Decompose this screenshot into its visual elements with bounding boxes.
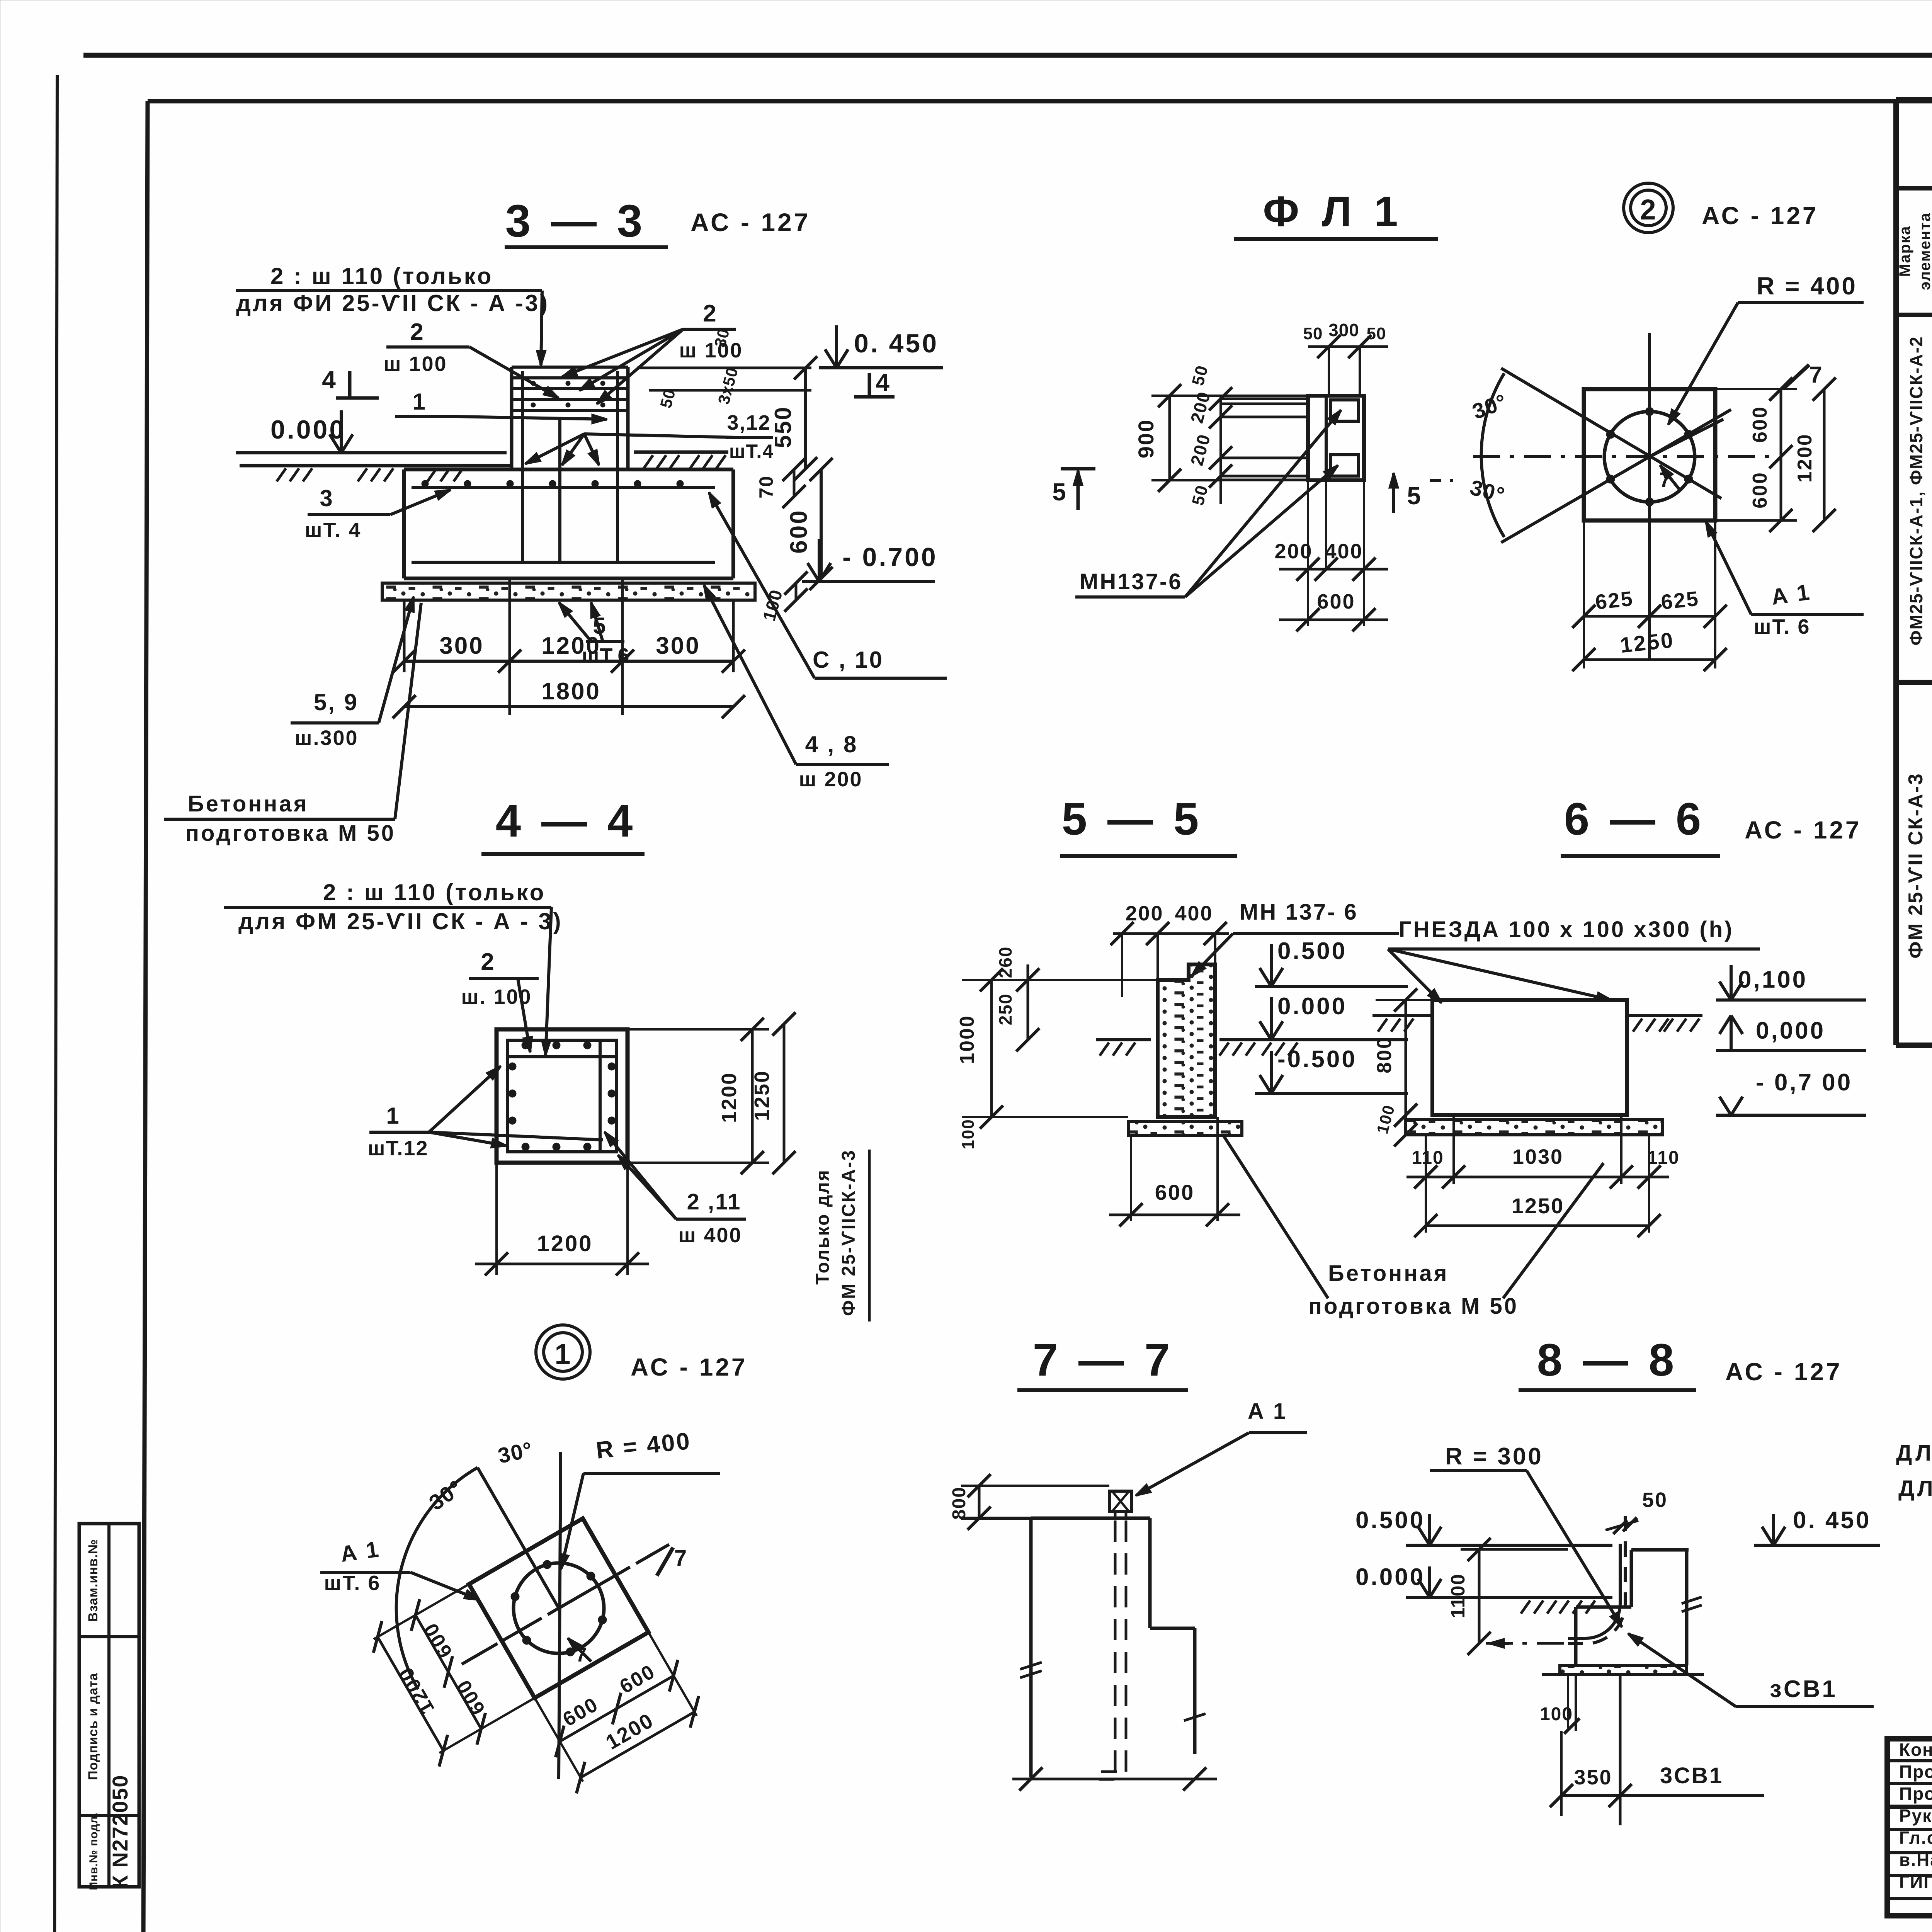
- svg-text:1250: 1250: [1512, 1194, 1565, 1218]
- svg-text:5, 9: 5, 9: [314, 689, 359, 715]
- svg-text:3: 3: [320, 485, 333, 511]
- svg-text:70: 70: [755, 475, 777, 498]
- svg-text:Констр: Констр: [1899, 1740, 1932, 1760]
- view 4-4 bottom dim 1200: [495, 1163, 498, 1275]
- svg-text:Проверил: Проверил: [1899, 1784, 1932, 1804]
- svg-text:0. 450: 0. 450: [1793, 1507, 1871, 1534]
- svg-text:-0.500: -0.500: [1277, 1046, 1357, 1073]
- svg-text:шТ.12: шТ.12: [368, 1137, 429, 1160]
- FL1 dim 900: [1168, 396, 1171, 480]
- svg-text:350: 350: [1574, 1766, 1612, 1789]
- svg-text:3СВ1: 3СВ1: [1660, 1763, 1723, 1788]
- left stamp table: [79, 1524, 139, 1887]
- svg-text:7 — 7: 7 — 7: [1033, 1335, 1174, 1386]
- svg-text:ДЛЯ ОСТАЛЬНОЙ АРМАТУРЫ - 3: ДЛЯ ОСТАЛЬНОЙ АРМАТУРЫ - 30 мм.: [1898, 1476, 1932, 1501]
- svg-text:300: 300: [656, 633, 700, 659]
- main frame top border: [148, 99, 1932, 104]
- svg-text:ФМ 25-ѴІІСК-А-3: ФМ 25-ѴІІСК-А-3: [838, 1149, 859, 1316]
- svg-text:ФМ 25-ѴІІ СК-А-3: ФМ 25-ѴІІ СК-А-3: [1905, 772, 1927, 958]
- svg-text:ГНЕЗДА 100 х 100 х300 (h): ГНЕЗДА 100 х 100 х300 (h): [1399, 917, 1734, 942]
- view 1 rotated square group: [362, 1485, 740, 1846]
- svg-text:7: 7: [1809, 362, 1823, 388]
- svg-text:1030: 1030: [1512, 1145, 1563, 1168]
- svg-text:подготовка М 50: подготовка М 50: [185, 821, 396, 846]
- svg-text:625: 625: [1594, 587, 1635, 614]
- svg-text:1800: 1800: [541, 678, 601, 705]
- svg-text:Марка: Марка: [1896, 226, 1913, 277]
- svg-text:200: 200: [1125, 902, 1163, 925]
- view 2 diagonals 30deg: [1501, 368, 1721, 498]
- svg-text:4: 4: [322, 366, 337, 394]
- view 5-5 column with concrete: [1158, 964, 1215, 1117]
- svg-text:400: 400: [1175, 902, 1213, 925]
- svg-text:50: 50: [1303, 324, 1323, 343]
- view 2 bottom dims: [1583, 520, 1585, 668]
- svg-text:0.000: 0.000: [1277, 993, 1347, 1020]
- view 5-5 left dims: [990, 980, 993, 1117]
- view 6-6 ground lines: [1372, 1014, 1432, 1017]
- svg-text:625: 625: [1660, 587, 1701, 614]
- svg-text:для ФМ 25-ѴІІ СК - А - 3): для ФМ 25-ѴІІ СК - А - 3): [238, 908, 563, 934]
- svg-text:шТ. 6: шТ. 6: [1754, 615, 1811, 638]
- svg-text:АС - 127: АС - 127: [1745, 816, 1862, 844]
- svg-text:4 — 4: 4 — 4: [496, 796, 637, 847]
- svg-text:АС - 127: АС - 127: [1725, 1358, 1842, 1386]
- view 3-3 dim 550: [804, 368, 807, 469]
- svg-text:для ФИ 25-ѴІІ СК - А -3): для ФИ 25-ѴІІ СК - А -3): [236, 290, 549, 316]
- svg-text:7: 7: [576, 1644, 588, 1666]
- svg-text:6 — 6: 6 — 6: [1564, 794, 1705, 845]
- svg-text:Инв.№ подл.: Инв.№ подл.: [87, 1812, 100, 1890]
- svg-text:260: 260: [995, 946, 1015, 978]
- svg-text:50: 50: [1367, 324, 1386, 343]
- view 1 30 deg construction lines: [478, 1468, 559, 1608]
- svg-text:R = 400: R = 400: [1757, 272, 1857, 300]
- FL1 dims 50/200/200/50: [1219, 396, 1222, 504]
- svg-text:600: 600: [1749, 471, 1771, 509]
- title block grid: [1887, 1759, 1932, 1762]
- svg-text:зСВ1: зСВ1: [1770, 1676, 1837, 1702]
- svg-text:шТ. 4: шТ. 4: [305, 519, 362, 542]
- svg-text:2: 2: [1640, 194, 1656, 226]
- svg-text:Рук. гр.: Рук. гр.: [1899, 1806, 1932, 1826]
- svg-text:110: 110: [1412, 1148, 1444, 1168]
- view 2 circle: [1604, 412, 1695, 502]
- view 5-5 concrete prep: [1129, 1122, 1242, 1136]
- svg-text:А 1: А 1: [1248, 1399, 1287, 1424]
- view 7-7 bottom dim line: [1012, 1778, 1217, 1781]
- svg-text:Гл.спец.: Гл.спец.: [1899, 1828, 1932, 1848]
- svg-text:7: 7: [1659, 468, 1672, 492]
- title block outer border: [1887, 1739, 1932, 1916]
- view 6-6 concrete prep: [1406, 1119, 1663, 1135]
- svg-text:Взам.инв.№: Взам.инв.№: [86, 1539, 100, 1622]
- svg-text:8 — 8: 8 — 8: [1537, 1335, 1678, 1386]
- svg-text:400: 400: [1325, 540, 1363, 563]
- sheet outer left border: [54, 75, 57, 1932]
- svg-text:0.000: 0.000: [1355, 1564, 1425, 1590]
- svg-text:1000: 1000: [956, 1015, 978, 1064]
- view 8-8 concrete outline: [1631, 1548, 1689, 1552]
- svg-text:- 0.700: - 0.700: [842, 543, 938, 572]
- view 4-4 right dims: [628, 1028, 769, 1031]
- svg-text:3,12: 3,12: [727, 411, 770, 434]
- svg-text:Ф Л 1: Ф Л 1: [1263, 188, 1403, 235]
- view 1 circle mark: [544, 1333, 582, 1371]
- view 8-8 dim 1100: [1478, 1549, 1481, 1643]
- svg-text:- 0,7 00: - 0,7 00: [1756, 1069, 1852, 1096]
- svg-text:шТ.4: шТ.4: [729, 440, 774, 462]
- svg-text:110: 110: [1647, 1148, 1679, 1168]
- svg-text:100: 100: [959, 1119, 978, 1149]
- svg-text:элемента: элемента: [1917, 212, 1932, 290]
- svg-text:Бетонная: Бетонная: [188, 791, 308, 816]
- FL1 embedded plate top: [1330, 400, 1359, 421]
- svg-text:800: 800: [1373, 1036, 1396, 1073]
- view 7-7 anchor bolt: [1109, 1491, 1132, 1512]
- view 5-5 bottom dim 600: [1130, 1136, 1132, 1221]
- svg-text:0,000: 0,000: [1756, 1017, 1825, 1044]
- svg-text:ш.300: ш.300: [294, 726, 358, 750]
- svg-text:2: 2: [703, 300, 717, 327]
- view 1 anchor dots: [543, 1560, 551, 1569]
- svg-text:МН137-6: МН137-6: [1080, 569, 1183, 594]
- svg-text:300: 300: [1328, 320, 1359, 340]
- view 3-3 footing outline: [404, 468, 733, 471]
- svg-text:5: 5: [1407, 482, 1422, 510]
- svg-text:1: 1: [554, 1338, 571, 1370]
- svg-text:ш 400: ш 400: [678, 1224, 742, 1247]
- svg-text:2 ,11: 2 ,11: [687, 1189, 742, 1214]
- FL1 embedded plate bottom: [1330, 455, 1359, 476]
- view 2 mark: [1631, 190, 1666, 226]
- svg-text:Бетонная: Бетонная: [1328, 1261, 1449, 1286]
- svg-text:5 — 5: 5 — 5: [1062, 794, 1203, 845]
- svg-text:2 : ш 110 (только: 2 : ш 110 (только: [270, 263, 493, 289]
- svg-text:2 : ш 110 (только: 2 : ш 110 (только: [323, 879, 546, 905]
- svg-text:Проект.: Проект.: [1899, 1762, 1932, 1782]
- view 3-3 footing top rebar: [412, 486, 715, 489]
- svg-text:4 , 8: 4 , 8: [805, 731, 858, 757]
- svg-text:Подпись и дата: Подпись и дата: [86, 1673, 100, 1780]
- svg-text:1100: 1100: [1447, 1573, 1469, 1618]
- svg-text:2: 2: [410, 319, 424, 345]
- svg-text:600: 600: [1749, 406, 1771, 443]
- svg-text:подготовка М 50: подготовка М 50: [1308, 1294, 1519, 1319]
- svg-text:600: 600: [786, 509, 812, 553]
- view 3-3 ground line: [240, 464, 510, 468]
- view 2 right dims: [1715, 388, 1797, 390]
- view 4-4 square section: [497, 1029, 628, 1163]
- svg-text:900: 900: [1134, 419, 1158, 458]
- view 7-7 level & dim 800: [961, 1517, 1087, 1520]
- view 7-7 dashed anchor lines: [1114, 1520, 1117, 1774]
- view 6-6 pier: [1432, 1000, 1627, 1115]
- svg-text:0.500: 0.500: [1277, 938, 1347, 964]
- view 1 lower-right dims (local bottom): [535, 1698, 583, 1782]
- svg-text:250: 250: [995, 993, 1015, 1026]
- svg-text:2: 2: [481, 949, 495, 975]
- view 3-3 column verticals: [510, 367, 514, 469]
- svg-text:ФМ25-ѴІІСК-А-1, ФМ25-ѴІІСК-А-2: ФМ25-ѴІІСК-А-1, ФМ25-ѴІІСК-А-2: [1906, 336, 1926, 645]
- svg-text:5: 5: [1052, 478, 1067, 506]
- svg-text:С , 10: С , 10: [813, 647, 884, 673]
- svg-text:1: 1: [412, 389, 426, 415]
- svg-text:4: 4: [876, 369, 890, 396]
- spec table header grid: [1896, 186, 1932, 190]
- main frame left border: [143, 101, 148, 1932]
- view 2 angle arc: [1481, 373, 1504, 537]
- view 2 anchor dots: [1645, 407, 1654, 416]
- view 2 square: [1584, 389, 1715, 520]
- svg-text:АС - 127: АС - 127: [690, 208, 810, 236]
- svg-text:ГИП: ГИП: [1899, 1872, 1932, 1892]
- spec table outer border: [1893, 100, 1899, 1045]
- svg-text:300: 300: [439, 633, 484, 659]
- svg-text:50: 50: [1642, 1488, 1668, 1512]
- view 3-3 footing bottom rebar: [412, 561, 715, 564]
- FL1 section mark 5 right: [1392, 473, 1395, 513]
- FL1 section mark 5 left: [1061, 469, 1095, 510]
- svg-text:0,100: 0,100: [1738, 966, 1808, 993]
- view 7-7 break marks: [1020, 1662, 1042, 1678]
- view 7-7 column outline: [1031, 1517, 1150, 1520]
- view 3-3 bottom dims: [509, 578, 511, 715]
- svg-text:АС - 127: АС - 127: [1702, 202, 1819, 230]
- svg-text:1200: 1200: [1794, 433, 1816, 483]
- svg-text:АС - 127: АС - 127: [631, 1353, 748, 1381]
- FL1 column rect: [1308, 396, 1364, 480]
- svg-text:R = 300: R = 300: [1445, 1443, 1543, 1470]
- svg-text:800: 800: [949, 1486, 969, 1520]
- svg-text:ш 200: ш 200: [799, 768, 862, 791]
- svg-text:3 — 3: 3 — 3: [505, 196, 646, 247]
- view 8-8 anchor bar: [1568, 1544, 1620, 1638]
- svg-text:1200: 1200: [537, 1231, 593, 1256]
- svg-text:1200: 1200: [541, 633, 601, 659]
- svg-text:ш 100: ш 100: [383, 352, 447, 376]
- svg-text:Только для: Только для: [813, 1169, 833, 1284]
- svg-text:шТ. 6: шТ. 6: [324, 1571, 381, 1595]
- view 8-8 axis dash-dot: [1486, 1642, 1574, 1645]
- view 8-8 concrete prep band: [1560, 1665, 1687, 1675]
- svg-text:600: 600: [1317, 590, 1355, 613]
- svg-text:600: 600: [1155, 1180, 1194, 1204]
- view 3-3 dim 70 600: [793, 469, 796, 497]
- svg-text:1250: 1250: [750, 1070, 774, 1121]
- svg-text:0.500: 0.500: [1355, 1507, 1425, 1534]
- sheet outer top border: [83, 53, 1932, 58]
- svg-text:1200: 1200: [718, 1072, 741, 1123]
- view 3-3 concrete prep band: [382, 583, 755, 600]
- view 6-6 bottom dims: [1425, 1135, 1427, 1233]
- spec table section divider: [1896, 680, 1932, 685]
- svg-text:7: 7: [674, 1546, 687, 1571]
- view 3-3 column rebar mesh: [512, 366, 628, 369]
- svg-text:К N272050: К N272050: [108, 1774, 132, 1888]
- view 6-6 left dims: [1405, 1000, 1407, 1115]
- view 1 lower-left dims (local left): [374, 1584, 469, 1639]
- svg-text:0. 450: 0. 450: [854, 329, 939, 358]
- svg-text:в.Нач отд.: в.Нач отд.: [1899, 1850, 1932, 1870]
- view 1 axes: [559, 1452, 561, 1779]
- FL1 mesh lines: [1222, 398, 1308, 400]
- view 2 axes: [1648, 333, 1651, 659]
- svg-text:1: 1: [386, 1103, 400, 1129]
- svg-text:МН 137- 6: МН 137- 6: [1240, 900, 1358, 925]
